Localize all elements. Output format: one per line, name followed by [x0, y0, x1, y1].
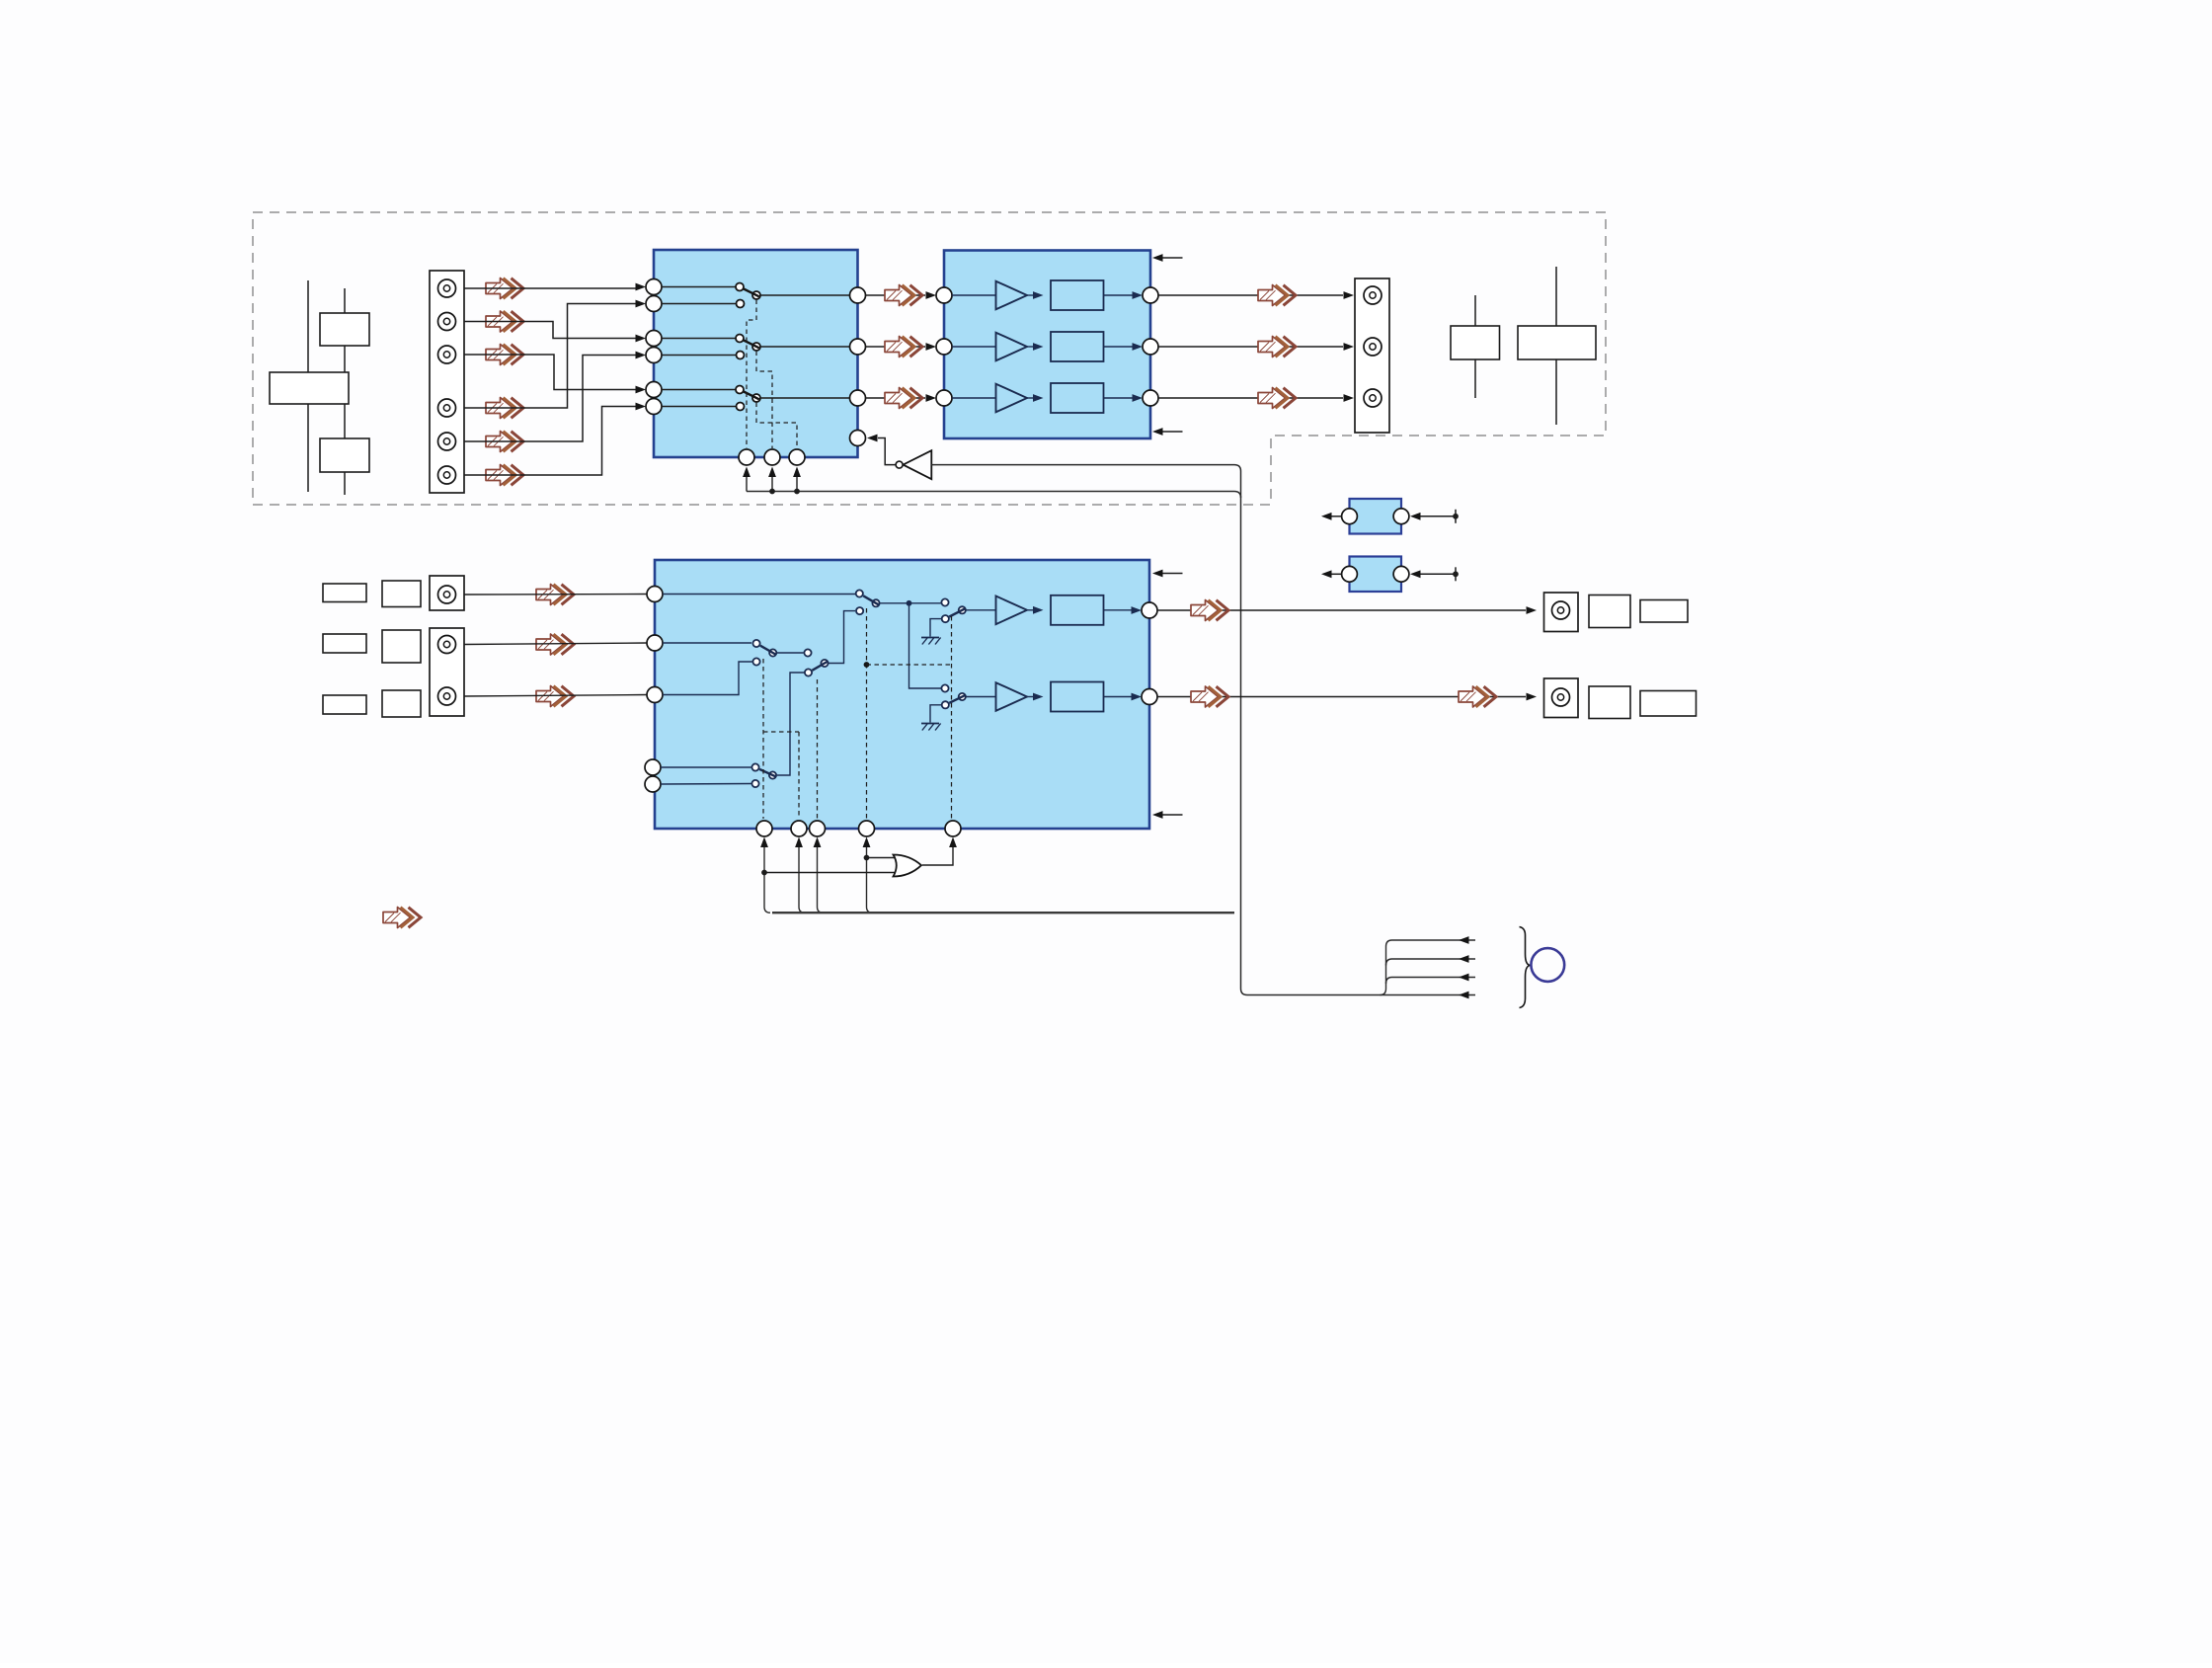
pin IC101 out1 [850, 287, 866, 303]
dashed control SW5 [762, 659, 764, 819]
jack J4 [438, 399, 456, 417]
wire stem S1 [307, 280, 309, 492]
wire in3 to SW5 throw2 [663, 662, 752, 695]
pin X2 right [1393, 566, 1409, 582]
jack J14 [1552, 688, 1570, 706]
connector box CN1b [320, 313, 369, 346]
connector box CN2b [1518, 326, 1596, 359]
selector switch SW1 [662, 283, 850, 308]
pin IC101 out3 [850, 390, 866, 406]
signal flow arrow A1 [486, 278, 523, 299]
pin IC102 out2 [1143, 339, 1158, 355]
pin IC201 out1 [1142, 602, 1157, 618]
AV switch IC201 [655, 560, 1149, 829]
dashed control ctl2 [798, 732, 800, 819]
label box L2a [323, 634, 366, 653]
label box L2b [382, 630, 421, 663]
jack J9 [1364, 389, 1382, 407]
wire jack to IC201 in3 [464, 695, 647, 697]
dashed control SW6 [817, 679, 819, 819]
fan arrow 2 [1459, 955, 1469, 963]
pin IC102 in1 [936, 287, 952, 303]
jack J1 [438, 279, 456, 297]
enable stub top IC201 [1152, 570, 1183, 578]
wire stem S4 [1555, 267, 1557, 425]
switch SW6 [804, 649, 828, 675]
pin IC101 ctl2 [764, 449, 780, 465]
enable stub bottom IC201 [1152, 811, 1183, 819]
wire IC101 to IC102 row2 [866, 343, 937, 351]
wire X2 in-right [1410, 570, 1456, 578]
ground GND2 [921, 724, 941, 731]
amplifier AMP2 [952, 332, 1143, 361]
wire jack to IC201 in2 [464, 643, 647, 645]
label box R1a [1589, 596, 1630, 628]
pin IC201 ctl3 [810, 821, 826, 836]
jack box CN201 [430, 576, 464, 610]
pin IC102 out3 [1143, 390, 1158, 406]
output jack strip CN102 [1355, 278, 1389, 433]
dashed control SW8/SW9 [951, 616, 953, 819]
output jack box CN203 [1544, 593, 1579, 632]
jack J13 [1552, 601, 1570, 619]
signal flow arrow A5 [486, 432, 523, 452]
signal flow arrow A11 [1258, 337, 1296, 357]
wire jack2 to pin A2 [464, 322, 646, 343]
fan arrow 3 [1459, 974, 1469, 982]
pin IC201 in3 [647, 687, 663, 703]
dashed control branch [763, 731, 799, 733]
remote circle [1531, 948, 1564, 982]
OR gate U2 [894, 855, 922, 877]
pin IC201 out2 [1142, 689, 1157, 705]
jack J10 [438, 586, 456, 603]
ctl riser x756 [743, 467, 750, 492]
wire SW6 throw2 to SW7 [777, 673, 805, 775]
wire in5 to SW7 throw2 [661, 783, 751, 786]
enable stub bottom IC102 [1152, 428, 1183, 436]
ground wire GND2 [930, 705, 941, 723]
label box L3a [323, 695, 366, 714]
outer dashed enclosure (tuner/input board) [253, 212, 1606, 505]
control bus IC101 [747, 492, 1241, 499]
amplifier AMP4 [966, 596, 1142, 625]
signal flow arrow A4 [486, 398, 523, 419]
pin IC101 in-B3 [646, 399, 662, 415]
amplifier block IC102 [944, 251, 1150, 439]
dashed control SW3 [756, 403, 797, 449]
signal flow arrow A16 [1191, 600, 1228, 621]
wire SW6 pole to SW4 throw2 [829, 611, 855, 664]
wire X2 out-left [1321, 570, 1342, 578]
signal flow arrow A14 [536, 634, 574, 655]
pin IC201 in5 [645, 776, 661, 792]
dashed control SW2 [756, 352, 772, 449]
signal flow arrow A12 [1258, 388, 1296, 409]
ctl riser x807 [793, 467, 801, 492]
wire IC201 out2 [1157, 693, 1537, 701]
relay box X2 [1350, 557, 1402, 593]
jack J3 [438, 346, 456, 363]
ctl riser 4 [863, 837, 873, 913]
wire in4 to SW7 [661, 766, 751, 768]
wire jack4 to pin B1 [464, 300, 646, 408]
output jack box CN204 [1544, 678, 1579, 718]
pin IC101 in-A1 [646, 279, 662, 295]
wire IC201 out1 [1157, 606, 1537, 614]
label box R2b [1640, 691, 1697, 717]
signal flow arrow A9 [885, 388, 922, 409]
pin IC201 in2 [647, 635, 663, 651]
signal flow arrow A18 [1459, 686, 1496, 707]
wire X1 in-right [1410, 513, 1456, 520]
dashed control SW4 [864, 608, 870, 819]
ctl riser x782 [768, 467, 776, 492]
switch SW4 [856, 590, 880, 614]
control bundle [772, 912, 1234, 913]
wire IC101 to IC102 row1 [866, 291, 937, 299]
jack J2 [438, 313, 456, 331]
tick X2 [1453, 567, 1459, 581]
wire OR input B [764, 872, 895, 874]
pin IC101 ctl1 [739, 449, 754, 465]
label box R1b [1640, 600, 1688, 623]
pin IC101 ctl3 [789, 449, 805, 465]
pin IC101 out2 [850, 339, 866, 355]
amplifier AMP1 [952, 280, 1143, 310]
pin IC101 in-A2 [646, 331, 662, 347]
switch SW7 [751, 763, 776, 787]
connector box CN2a [1451, 326, 1500, 359]
jack box CN202 [430, 628, 464, 716]
dashed control mute link [867, 664, 952, 666]
pin IC201 ctl1 [756, 821, 772, 836]
amplifier AMP3 [952, 383, 1143, 413]
pin IC102 in2 [936, 339, 952, 355]
pin IC201 in4 [645, 759, 661, 775]
label box R2a [1589, 686, 1630, 719]
wire in2 to SW5 [663, 642, 751, 644]
jack J6 [438, 466, 456, 484]
pin X1 left [1342, 509, 1358, 524]
signal flow arrow A7 [885, 285, 922, 306]
signal flow arrow A10 [1258, 285, 1296, 306]
pin IC102 out1 [1143, 287, 1158, 303]
dashed control SW1 [747, 300, 756, 449]
relay box X1 [1350, 499, 1402, 534]
signal flow arrow A13 [536, 585, 574, 605]
pin IC201 ctl5 [945, 821, 961, 836]
signal flow arrow A8 [885, 337, 922, 357]
selector switch SW2 [662, 335, 850, 359]
ctl riser 1 [760, 837, 770, 913]
wire SW4 pole run [880, 600, 941, 606]
wire in1 to SW4 [663, 594, 855, 596]
pin IC101 in-B1 [646, 296, 662, 312]
wire jack6 to pin B3 [464, 403, 646, 475]
wire IC102 out3 to jack [1158, 394, 1354, 402]
connector box CN1a [270, 372, 349, 404]
wire inverter input [931, 465, 1475, 995]
pin X2 left [1342, 566, 1358, 582]
amplifier AMP5 [966, 682, 1142, 712]
ground GND1 [921, 638, 941, 645]
fan arrow 1 [1459, 936, 1469, 944]
enable stub top IC102 [1152, 254, 1183, 262]
fan branch 3 [1386, 978, 1476, 985]
pin IC201 in1 [647, 587, 663, 602]
wire SW5 pole to SW6 [777, 652, 804, 654]
jack J5 [438, 433, 456, 450]
connector box CN1c [320, 438, 369, 472]
lone signal flow arrow A19 [383, 908, 421, 928]
pin IC102 in3 [936, 390, 952, 406]
wire jack3 to pin A3 [464, 355, 646, 393]
selector switch SW3 [662, 386, 850, 411]
wire OR input A [867, 857, 896, 859]
fan branch 2 [1386, 959, 1476, 966]
junction dot bus-1 [769, 489, 775, 495]
wire jack1 to pin A1 [464, 283, 646, 291]
mute switch SW9 [941, 684, 966, 708]
ground wire GND1 [930, 619, 941, 637]
signal flow arrow A15 [536, 686, 574, 707]
switch matrix IC101 [654, 250, 858, 457]
wire IC102 out1 to jack [1158, 291, 1354, 299]
input jack strip CN101 [430, 271, 464, 493]
ctl riser 2 [795, 837, 805, 913]
pin IC201 ctl4 [859, 821, 875, 836]
signal flow arrow A2 [486, 311, 523, 332]
fan arrow 4 [1459, 992, 1469, 999]
pin IC101 in-A3 [646, 382, 662, 398]
label box L1b [382, 581, 421, 607]
wire mute feed vertical [909, 603, 942, 688]
jack J12 [438, 687, 456, 705]
pin IC101 in-B2 [646, 348, 662, 363]
mute switch SW8 [941, 598, 966, 622]
label box L3b [382, 690, 421, 717]
signal flow arrow A3 [486, 345, 523, 365]
wire IC101 to IC102 row3 [866, 394, 937, 402]
label box L1a [323, 584, 366, 602]
wire bundle to fan [1381, 940, 1476, 995]
signal flow arrow A6 [486, 465, 523, 486]
wire jack5 to pin B2 [464, 352, 646, 441]
wire stem S3 [1474, 295, 1476, 398]
junction dot bus-2 [794, 489, 800, 495]
brace [1520, 927, 1532, 1008]
pin IC101 ctl-in (from inverter) [850, 431, 866, 446]
pin IC201 ctl2 [791, 821, 807, 836]
wire jack to IC201 in1 [464, 594, 647, 596]
wire OR output [922, 837, 957, 866]
wire stem S2 [344, 288, 346, 495]
jack J7 [1364, 286, 1382, 304]
switch SW5 [752, 640, 776, 666]
jack J11 [438, 636, 456, 654]
wire X1 out-left [1321, 513, 1342, 520]
pin X1 right [1393, 509, 1409, 524]
jack J8 [1364, 338, 1382, 356]
inverter U1 [867, 435, 931, 480]
wire IC102 out2 to jack [1158, 343, 1354, 351]
signal flow arrow A17 [1191, 686, 1228, 707]
ctl riser 3 [814, 837, 824, 913]
tick X1 [1453, 510, 1459, 523]
